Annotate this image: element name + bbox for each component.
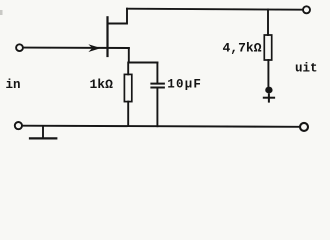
ground terminal (left bottom circle) xyxy=(15,122,22,129)
supply dot (+) node xyxy=(265,87,272,94)
ground bar xyxy=(30,137,56,139)
wire: resistor R1 top lead xyxy=(127,63,129,75)
wire: source node to capacitor xyxy=(129,62,158,64)
resistor R2 body xyxy=(264,35,271,60)
arrowhead on gate wire xyxy=(88,44,100,52)
resistor R1 body xyxy=(124,74,131,101)
ground stub xyxy=(42,126,44,138)
wire: resistor R2 top lead xyxy=(267,10,269,36)
plus sign vertical xyxy=(268,94,270,101)
wire: capacitor top lead xyxy=(156,63,158,83)
wire: bottom rail xyxy=(22,126,299,127)
svg-text:10µF: 10µF xyxy=(167,78,202,92)
wire: resistor R2 bottom lead xyxy=(267,60,269,86)
wire: input to gate/source line xyxy=(23,47,128,49)
transistor Q1 channel bar xyxy=(106,17,108,56)
input terminal (left top circle) xyxy=(16,44,23,51)
svg-text:1kΩ: 1kΩ xyxy=(90,77,114,92)
wire: drain lead up xyxy=(108,9,128,24)
svg-text:uit: uit xyxy=(295,62,318,76)
output terminal (top right circle) xyxy=(303,6,310,13)
wire: capacitor bottom lead xyxy=(156,88,158,126)
scan smudge left edge xyxy=(0,10,3,15)
capacitor C1 top plate xyxy=(151,83,164,85)
plus sign horizontal xyxy=(264,97,274,99)
svg-text:4,7kΩ: 4,7kΩ xyxy=(223,40,262,55)
wire: resistor R1 bottom lead xyxy=(127,102,129,126)
capacitor C1 bottom plate xyxy=(151,87,164,89)
svg-text:in: in xyxy=(6,78,21,92)
ground terminal (bottom right circle) xyxy=(300,123,308,131)
wire: top rail xyxy=(127,9,303,10)
wire: source corner down xyxy=(128,48,130,63)
